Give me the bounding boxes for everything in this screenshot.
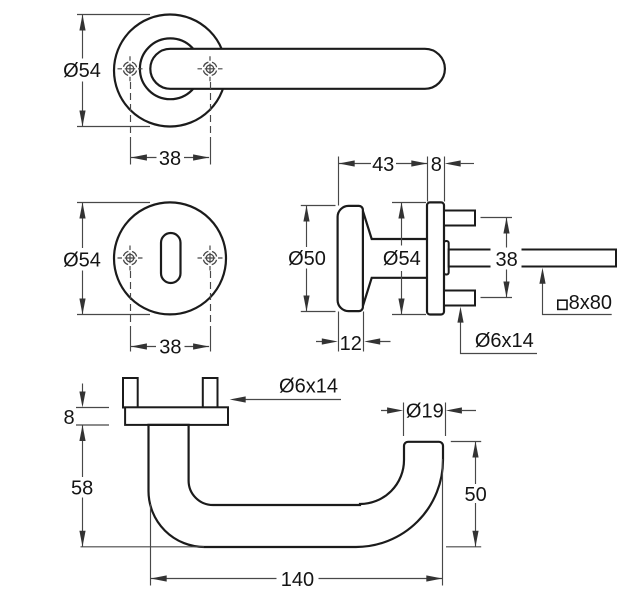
svg-text:50: 50 xyxy=(464,484,486,506)
svg-text:43: 43 xyxy=(372,154,394,176)
svg-text:Ø50: Ø50 xyxy=(288,248,326,270)
svg-text:38: 38 xyxy=(495,249,517,271)
svg-text:140: 140 xyxy=(281,569,314,591)
svg-text:8: 8 xyxy=(63,407,74,429)
svg-text:Ø54: Ø54 xyxy=(63,60,101,82)
svg-text:Ø54: Ø54 xyxy=(63,250,101,272)
svg-text:38: 38 xyxy=(159,337,181,359)
svg-text:Ø19: Ø19 xyxy=(406,401,444,423)
svg-text:8x80: 8x80 xyxy=(569,292,612,314)
svg-text:Ø6x14: Ø6x14 xyxy=(279,376,338,398)
svg-text:Ø6x14: Ø6x14 xyxy=(475,330,534,352)
svg-text:58: 58 xyxy=(71,477,93,499)
svg-text:38: 38 xyxy=(159,148,181,170)
svg-text:8: 8 xyxy=(431,154,442,176)
svg-text:Ø54: Ø54 xyxy=(383,248,421,270)
svg-text:12: 12 xyxy=(340,333,362,355)
